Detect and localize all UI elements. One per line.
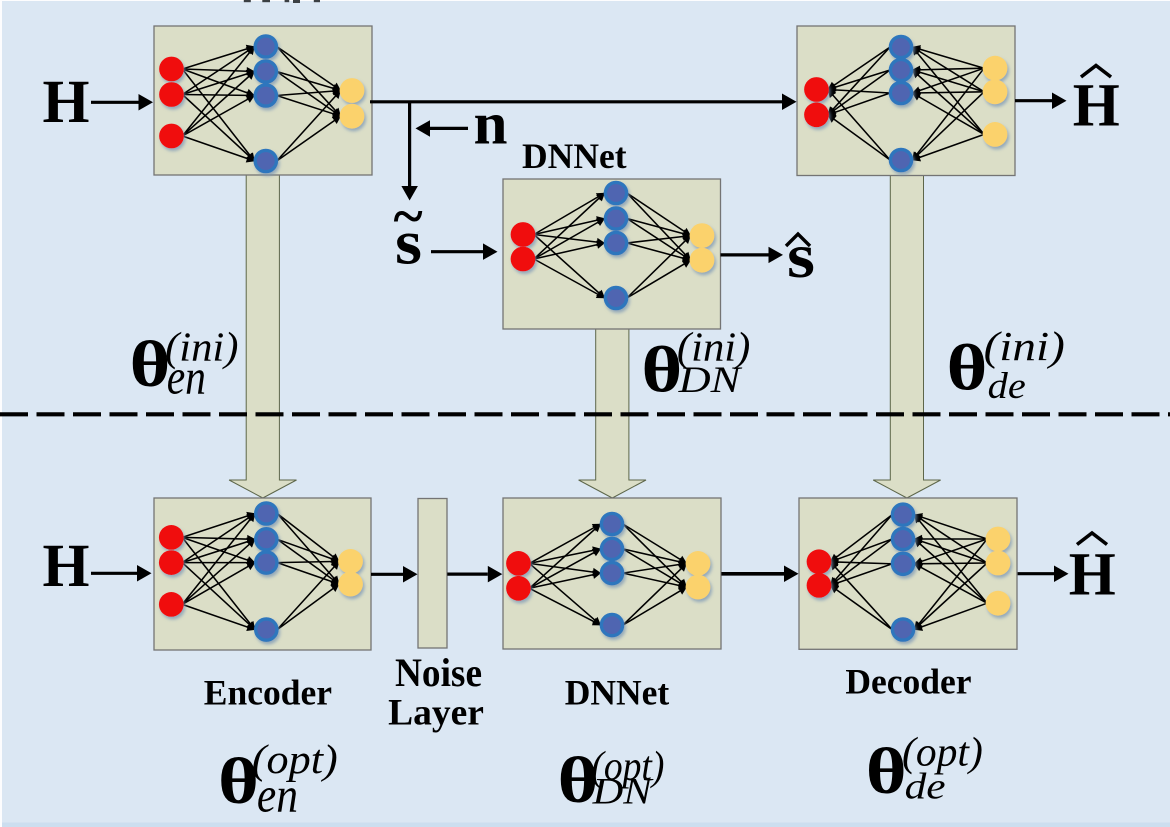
- arrow H to bottom encoder: [91, 572, 137, 575]
- block arrow encoder weights: [229, 174, 296, 498]
- svg-text:de: de: [905, 767, 946, 808]
- bot decoder nodes: [807, 549, 832, 597]
- top encoder box: [154, 26, 372, 175]
- svg-text:θ: θ: [947, 330, 988, 404]
- svg-text:DNNet: DNNet: [522, 136, 627, 176]
- arrow top decoder to H hat: [1015, 99, 1052, 102]
- svg-text:s: s: [787, 220, 815, 291]
- top dnnet nodes: [511, 222, 536, 271]
- svg-text:θ: θ: [866, 734, 907, 808]
- top dnnet connections: [534, 193, 691, 298]
- dashed separator line: [0, 412, 1170, 416]
- arrow bottom DNNet to bottom decoder: [721, 572, 784, 576]
- arrow top DNNet to s hat: [721, 253, 769, 256]
- svg-text:de: de: [988, 366, 1026, 407]
- svg-text:(ini): (ini): [984, 323, 1065, 369]
- svg-text:H: H: [43, 69, 90, 136]
- bot decoder box: [799, 498, 1017, 649]
- svg-text:~: ~: [393, 186, 422, 248]
- arrow noise layer to bottom DNNet: [447, 572, 488, 575]
- svg-text:n: n: [474, 91, 508, 157]
- bot dnnet connections: [529, 524, 686, 625]
- arrow junction down to s tilde: [408, 102, 411, 186]
- wire encoder output to decoder: [370, 100, 783, 103]
- block arrow DNNet weights: [579, 328, 646, 498]
- svg-text:en: en: [167, 349, 206, 405]
- svg-text:H: H: [1069, 542, 1116, 609]
- block arrow decoder weights: [873, 174, 940, 498]
- arrow s tilde into top DNNet: [431, 250, 483, 253]
- top encoder connections: [182, 47, 340, 162]
- arrow bottom decoder to H hat: [1018, 572, 1054, 575]
- arrow into top decoder: [782, 100, 783, 103]
- arrow bottom encoder to noise layer: [371, 573, 403, 576]
- svg-text:Encoder: Encoder: [204, 673, 332, 713]
- s hat accent: [786, 234, 810, 246]
- bot dnnet nodes: [506, 551, 531, 601]
- noise layer rect: [418, 499, 447, 649]
- top decoder box: [797, 26, 1015, 176]
- arrow n into junction: [430, 127, 468, 130]
- svg-text:Decoder: Decoder: [845, 661, 971, 701]
- arrow H to top encoder: [91, 101, 139, 104]
- bot encoder nodes: [159, 525, 184, 617]
- bot encoder box: [154, 498, 371, 650]
- hat accent top: [1081, 66, 1111, 78]
- svg-text:DNNet: DNNet: [565, 673, 670, 713]
- svg-text:en: en: [257, 766, 298, 822]
- svg-text:H: H: [43, 533, 90, 600]
- top encoder nodes: [159, 57, 184, 149]
- hat accent bottom: [1077, 533, 1107, 545]
- bot encoder connections: [182, 514, 339, 630]
- svg-text:Noise: Noise: [395, 650, 482, 695]
- top decoder nodes: [804, 77, 829, 127]
- svg-text:Layer: Layer: [388, 693, 484, 734]
- top decoder connections: [828, 47, 984, 160]
- bot decoder connections: [830, 515, 987, 630]
- bot dnnet box: [503, 498, 721, 649]
- svg-text:DN: DN: [591, 772, 654, 813]
- svg-text:DN: DN: [677, 360, 743, 401]
- cut-off Encoder label top: [244, 0, 320, 3]
- top dnnet box: [503, 179, 721, 329]
- svg-text:H: H: [1073, 73, 1120, 140]
